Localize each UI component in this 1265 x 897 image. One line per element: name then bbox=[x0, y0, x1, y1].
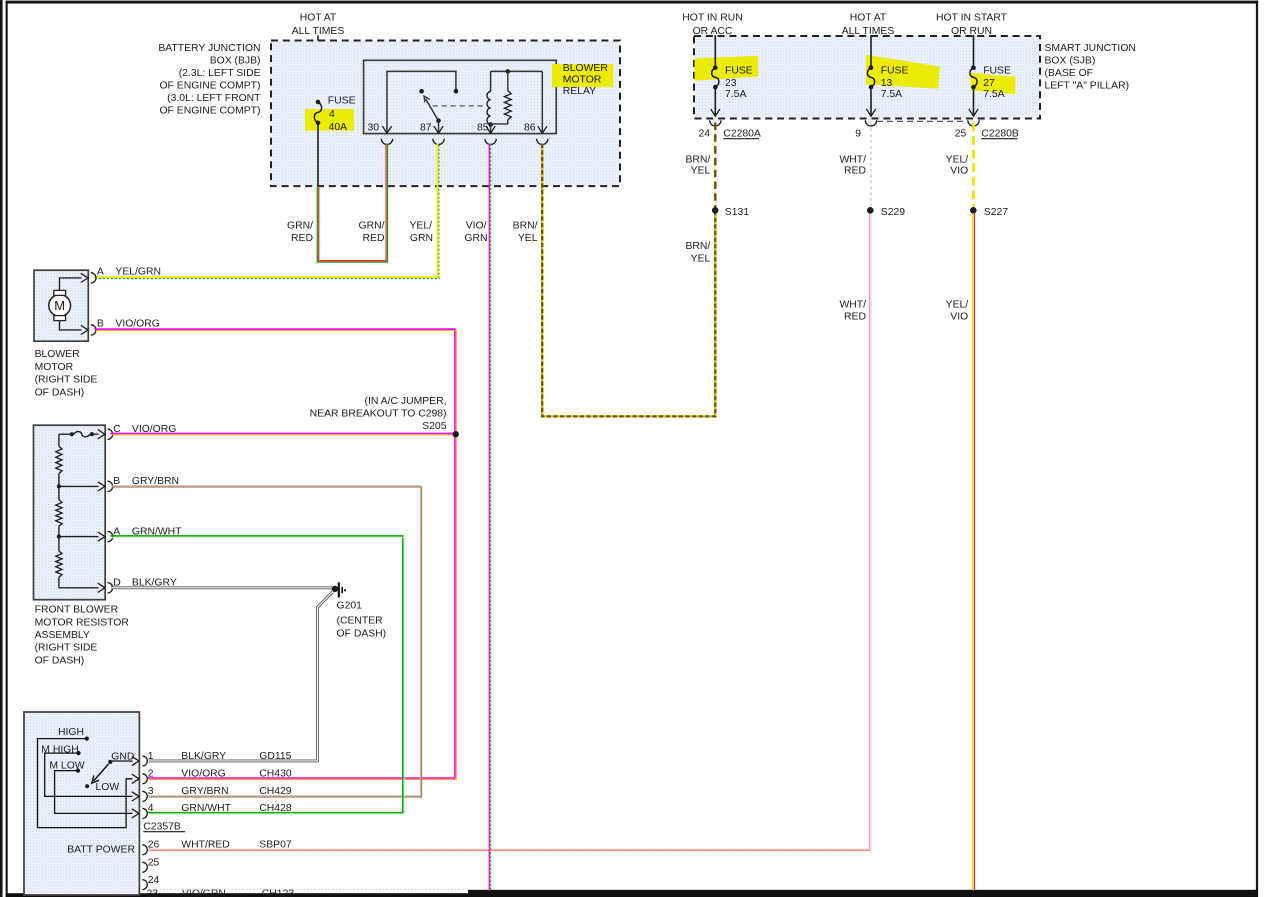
svg-text:VIO: VIO bbox=[950, 166, 968, 177]
svg-text:FRONT BLOWER: FRONT BLOWER bbox=[35, 605, 119, 616]
svg-text:GRN/: GRN/ bbox=[287, 220, 313, 231]
switch position HIGH bbox=[58, 727, 89, 741]
feed wire into fuse 13 bbox=[870, 35, 872, 68]
svg-text:FUSE: FUSE bbox=[328, 96, 356, 107]
relay pin 87 lead bbox=[436, 118, 441, 133]
svg-text:23: 23 bbox=[147, 889, 159, 897]
pin 26 WHT/RED SBP07 bbox=[148, 840, 292, 851]
svg-text:(RIGHT SIDE: (RIGHT SIDE bbox=[35, 643, 98, 654]
svg-text:GD115: GD115 bbox=[259, 751, 291, 762]
svg-text:MOTOR: MOTOR bbox=[35, 362, 74, 373]
blower motor box bbox=[34, 270, 88, 341]
svg-text:7.5A: 7.5A bbox=[881, 89, 902, 100]
wire: fuse 4 output inside BJB bbox=[317, 123, 319, 187]
svg-text:YEL/GRN: YEL/GRN bbox=[115, 266, 161, 277]
switch wiper arm GND to LOW bbox=[92, 764, 109, 783]
svg-text:YEL/: YEL/ bbox=[946, 299, 969, 310]
svg-text:BOX (SJB): BOX (SJB) bbox=[1045, 56, 1096, 67]
svg-text:RELAY: RELAY bbox=[563, 86, 596, 97]
svg-text:BLOWER: BLOWER bbox=[563, 63, 609, 74]
label: BATTERY JUNCTION BOX (BJB) bbox=[158, 43, 261, 117]
svg-text:S227: S227 bbox=[984, 207, 1008, 218]
splice S229 bbox=[867, 207, 905, 218]
wire YEL/VIO: S227 down to page bottom bbox=[973, 214, 975, 891]
svg-text:25: 25 bbox=[955, 128, 967, 139]
wire GRN/WHT: resistor A to switch pin 4 bbox=[110, 536, 404, 814]
wire VIO/ORG: motor B to S205 to switch pin 2 bbox=[94, 329, 456, 779]
svg-text:B: B bbox=[97, 319, 104, 330]
switch wire: M HIGH to pin 3 bbox=[45, 753, 139, 801]
svg-text:23: 23 bbox=[725, 78, 737, 89]
resistor R1 bbox=[56, 434, 62, 486]
svg-text:BATTERY JUNCTION: BATTERY JUNCTION bbox=[158, 43, 260, 54]
svg-text:MOTOR RESISTOR: MOTOR RESISTOR bbox=[35, 617, 130, 628]
wire YEL/GRN: relay 87 to blower motor A bbox=[94, 143, 439, 279]
svg-text:VIO/GRN: VIO/GRN bbox=[182, 889, 226, 897]
relay pin exit arrows bbox=[382, 126, 547, 133]
splice S131 bbox=[712, 207, 749, 218]
svg-text:CH429: CH429 bbox=[259, 786, 292, 797]
connector half below fuse 27 bbox=[968, 120, 979, 126]
thermal limiter and pin C lead bbox=[59, 430, 105, 439]
highlight over fuse 13 bbox=[866, 55, 940, 89]
connector half below fuse 13 bbox=[865, 120, 876, 126]
connector C2357B bbox=[143, 821, 185, 832]
relay pin 30 internal wire and fixed contact bbox=[387, 71, 458, 133]
pin 1 BLK/GRY GD115 bbox=[148, 751, 292, 762]
svg-text:YEL: YEL bbox=[691, 166, 711, 177]
label: BLOWER MOTOR RELAY bbox=[563, 63, 609, 97]
wire WHT/RED: S229 down to switch pin 26 bbox=[149, 214, 872, 851]
resistor connector halves C B A D bbox=[108, 429, 113, 593]
svg-text:CH123: CH123 bbox=[262, 889, 295, 897]
svg-text:S229: S229 bbox=[881, 207, 905, 218]
motor M symbol bbox=[49, 290, 71, 320]
switch position LOW bbox=[85, 782, 119, 793]
svg-text:VIO/ORG: VIO/ORG bbox=[181, 769, 225, 780]
svg-text:YEL/: YEL/ bbox=[946, 155, 969, 166]
connector pin 24 C2280A bbox=[698, 128, 760, 139]
svg-text:(IN A/C JUMPER,: (IN A/C JUMPER, bbox=[365, 396, 447, 407]
label VIO/GRN (relay side) bbox=[464, 220, 487, 244]
tap to pin A bbox=[57, 532, 105, 541]
splice S205 bbox=[310, 396, 459, 438]
svg-text:YEL/: YEL/ bbox=[409, 220, 432, 231]
svg-text:BATT POWER: BATT POWER bbox=[67, 845, 135, 856]
wire BLK/GRY: resistor D to ground G201 bbox=[111, 586, 332, 589]
ground G201 bbox=[332, 582, 386, 639]
wire VIO/GRN: relay 85 down to bottom bbox=[489, 144, 490, 891]
switch position M HIGH bbox=[41, 745, 80, 756]
relay common (moving) contact bbox=[419, 89, 424, 94]
label YEL/VIO (lower) bbox=[946, 299, 969, 322]
svg-text:CH430: CH430 bbox=[259, 769, 292, 780]
svg-text:(CENTER: (CENTER bbox=[337, 616, 384, 627]
svg-text:OF DASH): OF DASH) bbox=[35, 655, 85, 666]
svg-text:1: 1 bbox=[148, 751, 154, 762]
highlight over fuse 23 bbox=[695, 56, 759, 81]
resistor R2 bbox=[56, 486, 62, 536]
svg-text:SMART JUNCTION: SMART JUNCTION bbox=[1045, 43, 1136, 54]
switch position M LOW bbox=[49, 761, 84, 773]
svg-text:HIGH: HIGH bbox=[58, 727, 84, 738]
relay pin numbers 30 87 85 86 bbox=[367, 123, 535, 134]
pin 24 bbox=[148, 875, 160, 886]
label WHT/RED (upper) bbox=[839, 155, 866, 177]
svg-text:LOW: LOW bbox=[96, 782, 120, 793]
pin B label GRY/BRN bbox=[113, 476, 179, 487]
label BRN/YEL (relay side) bbox=[513, 220, 538, 244]
label BRN/YEL (below S131) bbox=[685, 241, 710, 265]
fuse F23 7.5A bbox=[711, 65, 753, 116]
fuse F13 7.5A bbox=[866, 65, 908, 116]
svg-text:YEL: YEL bbox=[691, 254, 711, 265]
blower motor relay K1 box bbox=[364, 60, 557, 133]
pin 2 VIO/ORG CH430 bbox=[148, 769, 292, 780]
connector pin 9 bbox=[855, 128, 861, 139]
label GRN/RED (fuse side) bbox=[287, 220, 313, 244]
svg-text:3: 3 bbox=[148, 786, 154, 797]
pin 23 VIO/GRN CH123 (clipped) bbox=[147, 889, 468, 897]
switch common GND bbox=[108, 752, 134, 764]
svg-text:WHT/: WHT/ bbox=[839, 155, 866, 166]
motor connector halves A and B bbox=[91, 273, 96, 335]
svg-text:24: 24 bbox=[148, 875, 160, 886]
svg-text:C2357B: C2357B bbox=[143, 821, 181, 832]
connector half below fuse 23 bbox=[710, 120, 721, 126]
svg-text:C2280A: C2280A bbox=[723, 128, 761, 139]
svg-text:GRN: GRN bbox=[410, 233, 433, 244]
highlight over fuse 4 bbox=[305, 109, 354, 131]
net label: HOT IN START OR RUN bbox=[936, 13, 1008, 37]
pin 25 bbox=[148, 857, 160, 868]
battery junction box (BJB) dashed enclosure bbox=[271, 41, 620, 187]
net label: HOT AT ALL TIMES (BJB feed) bbox=[292, 13, 345, 37]
connector halves below relay bbox=[381, 139, 548, 145]
svg-text:FUSE: FUSE bbox=[881, 65, 909, 76]
connector pin 25 C2280B bbox=[955, 128, 1019, 139]
svg-text:HOT AT: HOT AT bbox=[300, 13, 337, 24]
svg-text:HOT IN RUN: HOT IN RUN bbox=[682, 13, 742, 24]
svg-text:2: 2 bbox=[148, 769, 154, 780]
svg-text:(3.0L: LEFT FRONT: (3.0L: LEFT FRONT bbox=[167, 93, 261, 104]
svg-text:BLOWER: BLOWER bbox=[35, 349, 81, 360]
svg-text:4: 4 bbox=[329, 109, 335, 120]
pin A label GRN/WHT bbox=[113, 526, 182, 537]
label WHT/RED (lower) bbox=[839, 299, 866, 322]
feed wire into fuse 23 bbox=[714, 35, 716, 68]
svg-text:BLK/GRY: BLK/GRY bbox=[181, 751, 226, 762]
svg-text:S205: S205 bbox=[422, 421, 446, 432]
highlight over BLOWER MOTOR label bbox=[552, 64, 613, 87]
svg-text:BOX (BJB): BOX (BJB) bbox=[210, 56, 261, 67]
svg-text:FUSE: FUSE bbox=[725, 65, 753, 76]
wire GRY/BRN: resistor B to switch pin 3 bbox=[110, 486, 421, 797]
svg-text:86: 86 bbox=[524, 123, 536, 134]
svg-text:OF DASH): OF DASH) bbox=[35, 387, 85, 398]
svg-text:RED: RED bbox=[363, 233, 385, 244]
label YEL/VIO (upper) bbox=[946, 155, 969, 177]
resistor R3 bbox=[56, 537, 62, 588]
svg-text:GRN: GRN bbox=[464, 233, 487, 244]
wire BRN/YEL: relay 86 to splice S131 bbox=[542, 144, 715, 417]
svg-text:87: 87 bbox=[420, 123, 432, 134]
switch wire: GND to pin 1 bbox=[110, 756, 139, 765]
svg-text:VIO/ORG: VIO/ORG bbox=[115, 319, 159, 330]
svg-text:OF ENGINE COMPT): OF ENGINE COMPT) bbox=[159, 81, 260, 92]
svg-text:(2.3L: LEFT SIDE: (2.3L: LEFT SIDE bbox=[179, 68, 261, 79]
motor pin A lead bbox=[60, 273, 89, 290]
svg-text:LEFT "A" PILLAR): LEFT "A" PILLAR) bbox=[1045, 81, 1130, 92]
switch connector halves pins 26 25 24 bbox=[142, 845, 147, 890]
svg-text:13: 13 bbox=[881, 78, 893, 89]
label: SMART JUNCTION BOX (SJB) bbox=[1045, 43, 1136, 92]
svg-text:7.5A: 7.5A bbox=[725, 89, 746, 100]
svg-text:NEAR BREAKOUT TO C298): NEAR BREAKOUT TO C298) bbox=[310, 408, 447, 419]
svg-text:9: 9 bbox=[855, 128, 861, 139]
svg-text:7.5A: 7.5A bbox=[983, 89, 1004, 100]
wire WHT/RED dotted: SJB-9 to S229 bbox=[870, 123, 872, 208]
relay actuation dashed link bbox=[433, 105, 487, 107]
highlight over fuse 27 bbox=[971, 73, 1016, 94]
switch wire: M LOW to pin 4 bbox=[55, 771, 139, 818]
svg-text:G201: G201 bbox=[337, 601, 363, 612]
svg-text:FUSE: FUSE bbox=[983, 65, 1011, 76]
svg-text:OF DASH): OF DASH) bbox=[337, 628, 387, 639]
switch wire: HIGH to pin 2 bbox=[38, 739, 140, 828]
svg-text:RED: RED bbox=[291, 233, 313, 244]
svg-text:30: 30 bbox=[367, 123, 379, 134]
fuse F27 7.5A bbox=[969, 65, 1011, 116]
pin D lead bbox=[59, 583, 105, 592]
svg-text:(BASE OF: (BASE OF bbox=[1045, 68, 1094, 79]
svg-text:C2280B: C2280B bbox=[981, 128, 1019, 139]
svg-text:M HIGH: M HIGH bbox=[41, 745, 79, 756]
motor pin B lead bbox=[60, 321, 89, 335]
svg-text:WHT/: WHT/ bbox=[839, 299, 866, 310]
smart junction box (SJB) dashed enclosure bbox=[694, 36, 1040, 119]
wire BRN/YEL dashed: C2280A-24 to S131 bbox=[714, 123, 716, 208]
label: BLOWER MOTOR (RIGHT SIDE OF DASH) bbox=[35, 349, 98, 398]
pin A label YEL/GRN bbox=[97, 266, 161, 277]
blower motor switch box bbox=[24, 712, 139, 895]
relay pin 86 lead bbox=[541, 71, 543, 133]
svg-text:27: 27 bbox=[983, 78, 995, 89]
svg-text:BRN/: BRN/ bbox=[685, 155, 710, 166]
wire: feed from HOT AT ALL TIMES to fuse 4 bbox=[317, 35, 319, 102]
label BRN/YEL (upper) bbox=[685, 155, 710, 177]
splice S227 bbox=[970, 207, 1008, 218]
net label: HOT IN RUN OR ACC bbox=[682, 13, 742, 37]
svg-text:S131: S131 bbox=[725, 207, 749, 218]
label GRN/RED (relay side) bbox=[359, 220, 385, 244]
svg-text:RED: RED bbox=[844, 312, 866, 323]
svg-text:VIO: VIO bbox=[950, 312, 968, 323]
svg-text:26: 26 bbox=[148, 840, 160, 851]
relay suppression resistor bbox=[491, 71, 512, 124]
svg-text:40A: 40A bbox=[329, 122, 348, 133]
wire YEL/VIO dashed: C2280B-25 to S227 bbox=[972, 123, 975, 208]
wire VIO/ORG: resistor C to S205 bbox=[110, 433, 455, 435]
svg-text:HOT AT: HOT AT bbox=[850, 13, 887, 24]
svg-text:24: 24 bbox=[698, 128, 710, 139]
svg-text:RED: RED bbox=[844, 166, 866, 177]
pin 4 GRN/WHT CH428 bbox=[148, 803, 292, 814]
fuse F4 40A bbox=[314, 96, 355, 134]
feed wire into fuse 27 bbox=[973, 35, 975, 68]
svg-text:CH428: CH428 bbox=[259, 803, 292, 814]
relay coil (pin 85/86) bbox=[487, 69, 542, 134]
pin D label BLK/GRY bbox=[113, 578, 177, 589]
svg-text:MOTOR: MOTOR bbox=[563, 75, 602, 86]
dashed connector bracket C2280B bbox=[877, 120, 967, 122]
svg-text:SBP07: SBP07 bbox=[259, 840, 292, 851]
svg-text:WHT/RED: WHT/RED bbox=[181, 840, 229, 851]
svg-text:BRN/: BRN/ bbox=[513, 220, 538, 231]
wire BLK/GRY: G201 to switch pin 1 bbox=[149, 592, 333, 761]
relay switch arm (pin 30/87) bbox=[424, 96, 438, 121]
pin C label VIO/ORG bbox=[113, 424, 176, 435]
svg-text:ASSEMBLY: ASSEMBLY bbox=[35, 630, 90, 641]
svg-text:YEL: YEL bbox=[518, 233, 538, 244]
pin 3 GRY/BRN CH429 bbox=[148, 786, 292, 797]
svg-text:OF ENGINE COMPT): OF ENGINE COMPT) bbox=[159, 106, 260, 117]
svg-text:VIO/: VIO/ bbox=[466, 220, 487, 231]
switch connector halves pins 1-4 bbox=[142, 756, 147, 818]
wire GRN/RED: fuse 4 to relay pin 30 (U loop) bbox=[317, 144, 387, 262]
svg-text:GRN/WHT: GRN/WHT bbox=[181, 803, 231, 814]
label: FRONT BLOWER MOTOR RESISTOR ASSEMBLY bbox=[35, 605, 130, 667]
svg-text:M: M bbox=[54, 298, 65, 313]
net label: HOT AT ALL TIMES (SJB) bbox=[842, 13, 895, 37]
svg-text:25: 25 bbox=[148, 857, 160, 868]
tap to pin B bbox=[57, 482, 105, 491]
svg-text:A: A bbox=[97, 266, 104, 277]
front blower motor resistor assembly box bbox=[34, 425, 106, 600]
svg-text:BRN/: BRN/ bbox=[685, 241, 710, 252]
svg-text:GRN/: GRN/ bbox=[359, 220, 385, 231]
svg-text:GRY/BRN: GRY/BRN bbox=[181, 786, 228, 797]
pin B label VIO/ORG bbox=[97, 319, 160, 330]
svg-text:4: 4 bbox=[148, 803, 154, 814]
label BATT POWER bbox=[67, 845, 135, 856]
svg-text:(RIGHT SIDE: (RIGHT SIDE bbox=[35, 375, 98, 386]
svg-text:HOT IN START: HOT IN START bbox=[936, 13, 1008, 24]
label YEL/GRN (relay side) bbox=[409, 220, 433, 244]
